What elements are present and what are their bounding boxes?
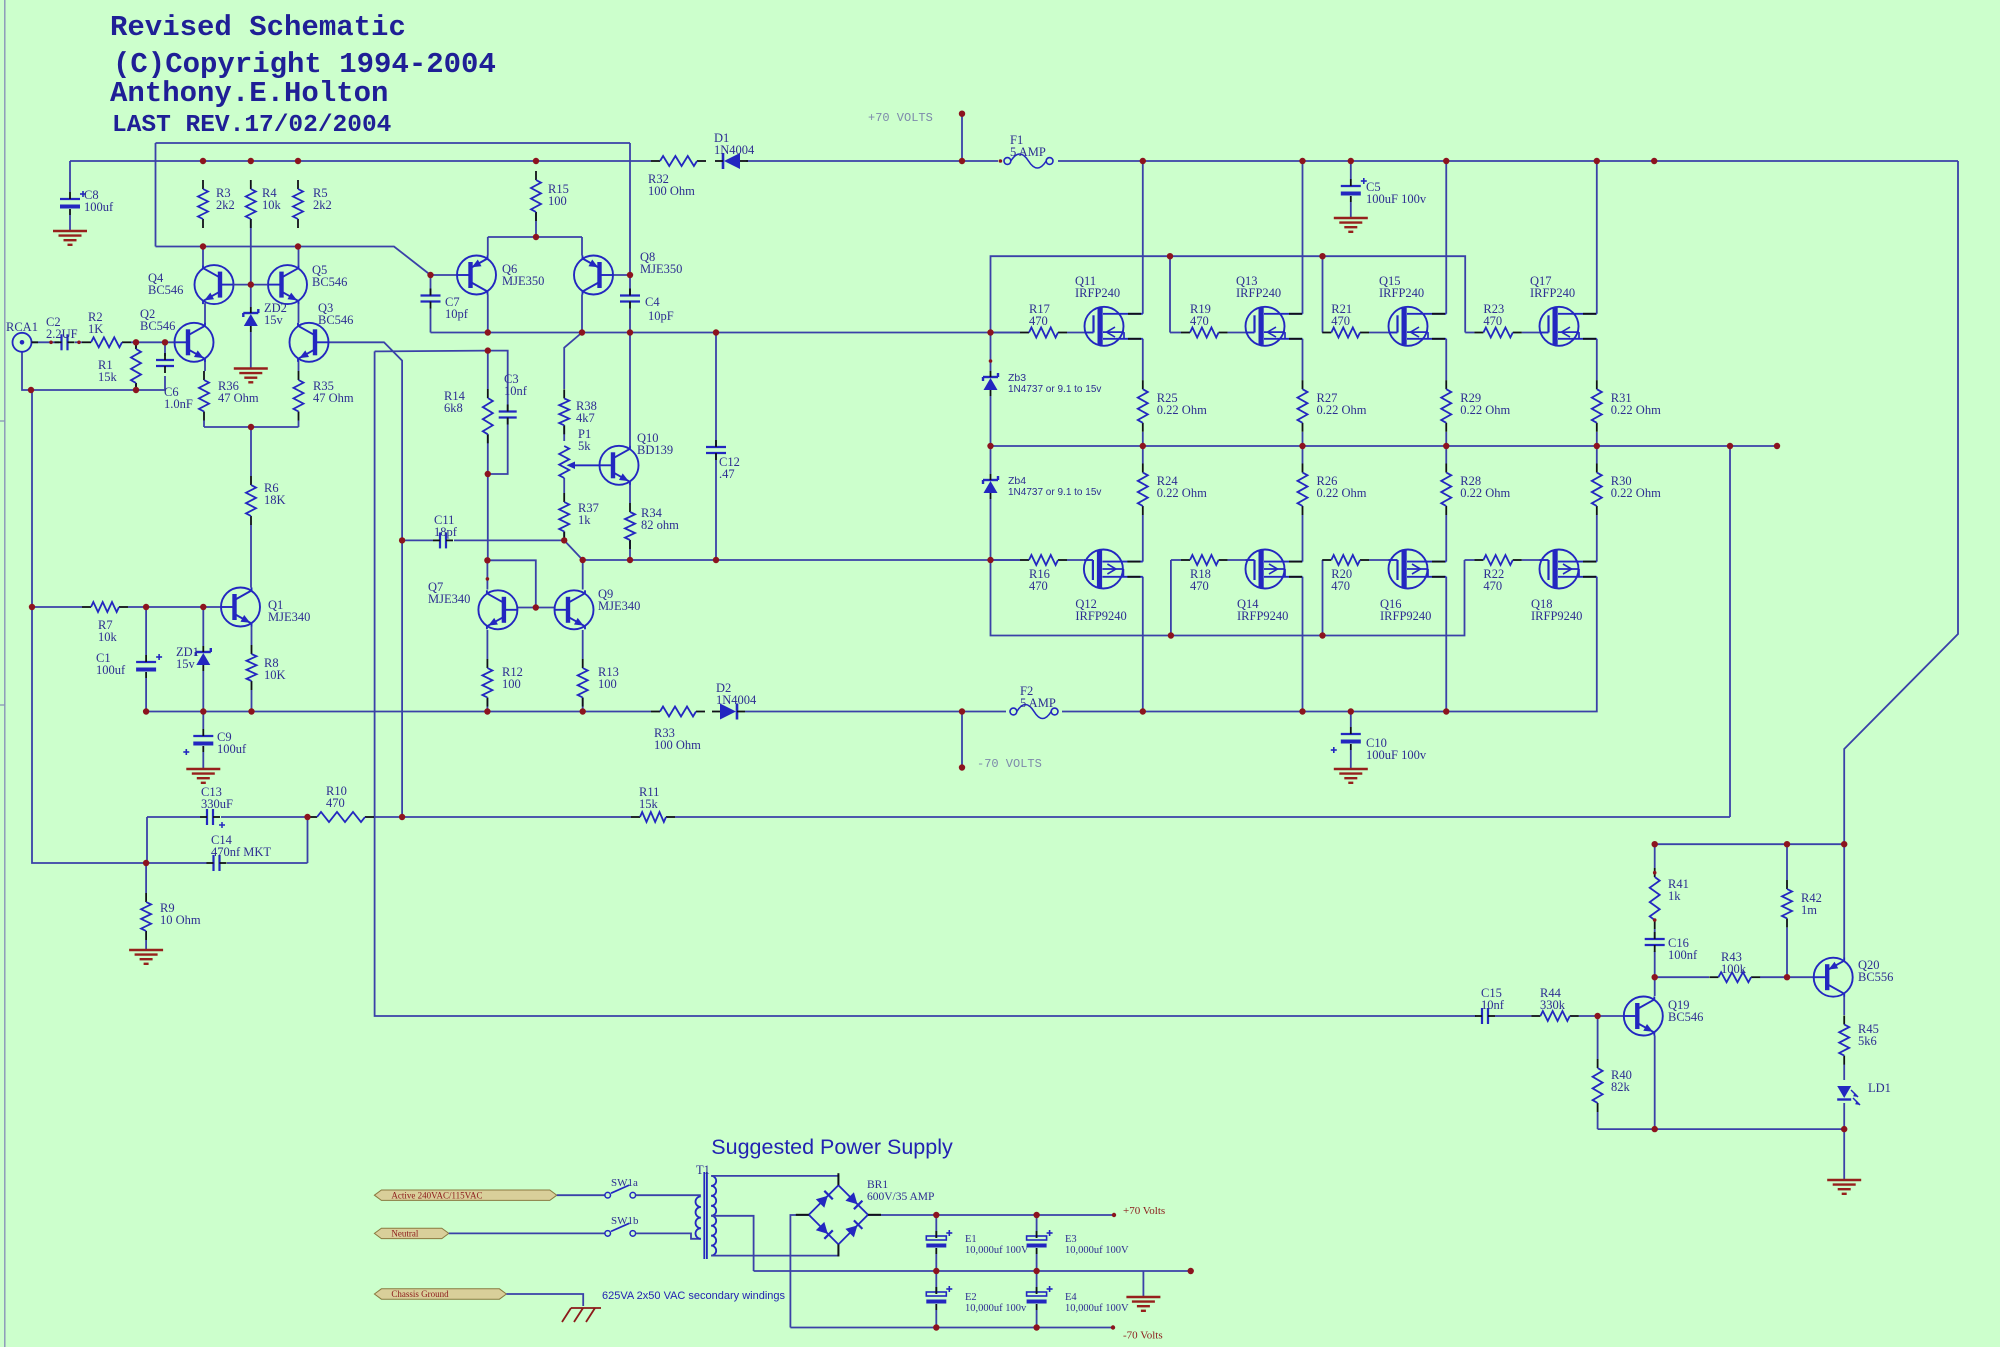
mosfet Q16 bbox=[1389, 550, 1447, 589]
svg-text:100: 100 bbox=[548, 194, 567, 208]
fuse F1 bbox=[1004, 154, 1053, 168]
mosfet Q17 bbox=[1540, 307, 1597, 346]
label D2 bbox=[716, 681, 757, 707]
pin dot R41a bbox=[1653, 871, 1657, 875]
svg-text:C4: C4 bbox=[645, 295, 660, 309]
text +70 VOLTS bbox=[868, 111, 933, 125]
label Q9 bbox=[598, 587, 640, 613]
svg-text:82 ohm: 82 ohm bbox=[641, 518, 679, 532]
wire R14 top stub bbox=[487, 351, 489, 389]
wire Active-SW1a bbox=[557, 1194, 605, 1196]
wire neg rail mid bbox=[745, 711, 1006, 713]
svg-text:MJE340: MJE340 bbox=[268, 610, 310, 624]
svg-text:E3: E3 bbox=[1065, 1234, 1077, 1245]
wire -70 line bbox=[790, 1325, 1115, 1329]
label BR1 bbox=[867, 1179, 934, 1203]
wire left vert bbox=[32, 390, 146, 863]
wire ZD2 top bbox=[250, 285, 252, 307]
svg-text:625VA 2x50 VAC secondary windi: 625VA 2x50 VAC secondary windings bbox=[602, 1290, 786, 1302]
resistor R17 bbox=[1020, 328, 1067, 338]
label E3 bbox=[1065, 1234, 1129, 1256]
junction at (1787,977) bbox=[1784, 974, 1790, 980]
wire Q8 base bbox=[613, 274, 631, 276]
svg-text:SW1b: SW1b bbox=[611, 1215, 639, 1227]
capacitor C4 bbox=[620, 289, 640, 309]
label R19 bbox=[1190, 302, 1211, 328]
flag Neutral bbox=[374, 1228, 448, 1238]
capacitor C15 bbox=[1475, 1008, 1495, 1024]
wire gate bus lower bbox=[583, 559, 1020, 561]
label Q17 bbox=[1530, 274, 1575, 300]
svg-text:470: 470 bbox=[326, 796, 345, 810]
wire source vert upper x1302 bbox=[1302, 339, 1304, 380]
svg-text:100: 100 bbox=[598, 677, 617, 691]
wire C4 stub bbox=[629, 275, 631, 296]
pin dot C2b bbox=[77, 341, 81, 345]
pin dot Q7c bbox=[486, 577, 490, 581]
svg-text:10pF: 10pF bbox=[648, 309, 674, 323]
label C2 bbox=[46, 315, 78, 341]
svg-text:10,000uf 100V: 10,000uf 100V bbox=[1065, 1303, 1129, 1314]
junction at (1170,256) bbox=[1167, 253, 1173, 259]
label Q14 bbox=[1237, 597, 1288, 623]
svg-text:470: 470 bbox=[1331, 579, 1350, 593]
svg-text:5 AMP: 5 AMP bbox=[1010, 145, 1046, 159]
svg-text:Anthony.E.Holton: Anthony.E.Holton bbox=[110, 77, 388, 110]
junction at (1190,1271) bbox=[1188, 1268, 1194, 1274]
junction at (1446,161) bbox=[1443, 158, 1449, 164]
junction at (630,332) bbox=[627, 329, 633, 335]
junction at (203,246) bbox=[200, 243, 206, 249]
zener Zb4 bbox=[983, 474, 998, 499]
svg-text:470: 470 bbox=[1190, 579, 1209, 593]
label R20 bbox=[1331, 567, 1352, 593]
svg-text:0.22 Ohm: 0.22 Ohm bbox=[1460, 486, 1510, 500]
svg-text:47 Ohm: 47 Ohm bbox=[313, 391, 354, 405]
resistor R8 bbox=[247, 645, 257, 690]
wire Q20 emitter bbox=[1843, 844, 1845, 958]
wire Q5 base bbox=[251, 284, 268, 286]
label Q11 bbox=[1075, 274, 1120, 300]
wire Q6 base bbox=[431, 274, 458, 276]
label R30 bbox=[1611, 474, 1661, 500]
wire source res2 bottom x1302 bbox=[1302, 446, 1304, 464]
wire Q9 emitter bbox=[582, 630, 584, 659]
svg-text:BD139: BD139 bbox=[637, 443, 673, 457]
resistor R15 bbox=[531, 171, 541, 221]
junction at (1350,711) bbox=[1348, 708, 1354, 714]
label Q12 bbox=[1075, 597, 1126, 623]
transistor Q5 bbox=[268, 265, 307, 304]
svg-text:6k8: 6k8 bbox=[444, 401, 463, 415]
svg-text:1K: 1K bbox=[88, 322, 103, 336]
wire +70 rail right bbox=[1058, 160, 1958, 162]
svg-text:100uf: 100uf bbox=[96, 663, 126, 677]
transformer T1 bbox=[695, 1172, 716, 1259]
wire R42 bottom bbox=[1786, 928, 1788, 978]
wire drain vert lower x1142 bbox=[1142, 577, 1144, 712]
wire R40 bottom bbox=[1597, 1112, 1599, 1129]
wire R38-P1 bbox=[563, 425, 565, 441]
text -70 VOLTS bbox=[977, 757, 1042, 771]
transistor Q10 bbox=[600, 446, 639, 485]
wire R18-gate bbox=[1228, 559, 1246, 561]
resistor R28 bbox=[1441, 464, 1451, 516]
wire R6 top bbox=[250, 427, 252, 476]
svg-text:E4: E4 bbox=[1065, 1292, 1077, 1303]
wire R15 bottom bbox=[535, 212, 537, 237]
svg-text:5 AMP: 5 AMP bbox=[1020, 696, 1056, 710]
junction at (962,113) bbox=[959, 111, 965, 117]
wire feed vert R18 bbox=[1170, 560, 1172, 636]
svg-text:470nf MKT: 470nf MKT bbox=[211, 845, 271, 859]
wire drain vert upper x1302 bbox=[1302, 161, 1304, 314]
svg-text:IRFP9240: IRFP9240 bbox=[1237, 609, 1288, 623]
wire Zb3 top bbox=[990, 333, 992, 372]
wire ZD1 top bbox=[202, 607, 204, 646]
junction at (487,711) bbox=[484, 708, 490, 714]
mosfet Q14 bbox=[1246, 550, 1303, 589]
wire C12 top bbox=[715, 333, 717, 448]
wire Q4 collector bbox=[202, 247, 204, 266]
svg-text:10 Ohm: 10 Ohm bbox=[160, 913, 201, 927]
junction at (203,607) bbox=[200, 604, 206, 610]
svg-text:Neutral: Neutral bbox=[391, 1229, 418, 1239]
svg-text:0.22 Ohm: 0.22 Ohm bbox=[1157, 403, 1207, 417]
label R8 bbox=[264, 656, 286, 682]
wire C13 left bbox=[146, 817, 148, 863]
wire Q6 collector down bbox=[487, 295, 489, 333]
svg-text:MJE340: MJE340 bbox=[428, 592, 470, 606]
transistor Q4 bbox=[195, 265, 234, 304]
wire C13 line bbox=[147, 816, 308, 818]
wire source vert upper x1142 bbox=[1142, 339, 1144, 380]
svg-text:1N4737 or 9.1 to 15v: 1N4737 or 9.1 to 15v bbox=[1008, 487, 1101, 498]
junction at (1322,256) bbox=[1319, 253, 1325, 259]
wire gate bus upper bbox=[431, 332, 1021, 334]
resistor R40 bbox=[1593, 1059, 1603, 1112]
junction at (250,284) bbox=[248, 281, 254, 287]
label C1 bbox=[96, 651, 126, 677]
wire zero volt line bbox=[754, 1270, 1191, 1272]
wire Q4 base bbox=[233, 284, 251, 286]
svg-text:470: 470 bbox=[1029, 314, 1048, 328]
wire R8 bottom bbox=[251, 690, 253, 712]
wire Q6 emitter up bbox=[487, 237, 489, 256]
wire C12 bottom bbox=[715, 454, 717, 561]
wire output vert bbox=[1729, 446, 1731, 817]
svg-text:470: 470 bbox=[1029, 579, 1048, 593]
pin dot C2a bbox=[49, 341, 53, 345]
label Q7 bbox=[428, 580, 470, 606]
potentiometer P1 bbox=[559, 446, 600, 478]
wire +70 stub bbox=[961, 114, 963, 161]
junction at (990,332) bbox=[987, 329, 993, 335]
resistor R18 bbox=[1181, 555, 1228, 565]
wire source res2 bottom x1142 bbox=[1142, 446, 1144, 464]
wire R9 bottom bbox=[145, 940, 147, 949]
wire +70 line bbox=[867, 1213, 1116, 1217]
wire +70 rail mid bbox=[746, 160, 998, 162]
label R32 bbox=[648, 172, 695, 198]
pin dot R41b bbox=[1653, 918, 1657, 922]
junction at (307,817) bbox=[304, 814, 310, 820]
diode D1 bbox=[715, 153, 748, 169]
junction at (251,427) bbox=[248, 424, 254, 430]
resistor R1 bbox=[131, 340, 141, 392]
wire diag R37-Q9col bbox=[564, 540, 583, 560]
junction at (936,1327) bbox=[933, 1324, 939, 1330]
svg-text:330uF: 330uF bbox=[201, 797, 233, 811]
svg-text:1N4737 or 9.1 to 15v: 1N4737 or 9.1 to 15v bbox=[1008, 384, 1101, 395]
capacitor E4 bbox=[1027, 1286, 1053, 1310]
svg-text:1N4004: 1N4004 bbox=[716, 693, 757, 707]
svg-text:4k7: 4k7 bbox=[576, 411, 595, 425]
wire LED bottom bbox=[1843, 1103, 1845, 1129]
wire R21 left bbox=[1321, 332, 1323, 334]
svg-text:10nf: 10nf bbox=[504, 384, 528, 398]
svg-text:100 Ohm: 100 Ohm bbox=[648, 184, 695, 198]
resistor R33 bbox=[651, 707, 705, 717]
wire R23-gate bbox=[1522, 332, 1540, 334]
wire R10-R11 line bbox=[374, 816, 1730, 818]
ground PSU bbox=[1126, 1297, 1160, 1311]
label Q18 bbox=[1531, 597, 1582, 623]
label Q4 bbox=[148, 271, 183, 297]
wire Q7 collector bbox=[486, 560, 488, 589]
label R35 bbox=[313, 379, 354, 405]
transistor Q3 bbox=[290, 323, 329, 362]
label LD1 bbox=[1868, 1081, 1891, 1095]
wire Zb3 bottom bbox=[990, 396, 992, 446]
ground C8 bbox=[53, 231, 87, 245]
flag Chassis Ground bbox=[374, 1289, 506, 1299]
capacitor C14 bbox=[207, 855, 227, 871]
junction at (1844,844) bbox=[1841, 841, 1847, 847]
wire R43 left bbox=[1655, 976, 1709, 978]
wire C6 top bbox=[164, 342, 166, 356]
ground R9 bbox=[129, 950, 163, 964]
wire base row bbox=[156, 247, 431, 276]
wire source vert lower x1142 bbox=[1142, 515, 1144, 562]
capacitor E1 bbox=[926, 1230, 952, 1254]
junction at (1036,1271) bbox=[1033, 1268, 1039, 1274]
junction at (536,237) bbox=[533, 234, 539, 240]
label C8 bbox=[84, 188, 114, 214]
svg-text:+70 Volts: +70 Volts bbox=[1123, 1205, 1165, 1217]
resistor R43 bbox=[1709, 972, 1760, 982]
label C6 bbox=[164, 385, 193, 411]
label R45 bbox=[1858, 1022, 1879, 1048]
label R26 bbox=[1317, 474, 1367, 500]
label ZD1 bbox=[176, 645, 199, 671]
capacitor C13 bbox=[200, 809, 220, 825]
zener ZD1 bbox=[196, 646, 211, 671]
title text bbox=[110, 11, 496, 139]
junction at (251,711) bbox=[248, 708, 254, 714]
svg-text:SW1a: SW1a bbox=[611, 1177, 638, 1189]
svg-text:BC546: BC546 bbox=[318, 313, 353, 327]
resistor R7 bbox=[82, 602, 128, 612]
label R34 bbox=[641, 506, 679, 532]
label R27 bbox=[1317, 391, 1367, 417]
label R31 bbox=[1611, 391, 1661, 417]
label R37 bbox=[578, 501, 599, 527]
wire drain vert upper Q17 bbox=[1596, 161, 1598, 314]
capacitor C8 bbox=[60, 191, 86, 215]
wire R1 bottom bbox=[135, 383, 137, 390]
transistor Q9 bbox=[555, 590, 594, 629]
wire C3 bottom bbox=[488, 418, 508, 475]
label SW1b bbox=[611, 1215, 639, 1227]
wire Q1 base bbox=[220, 606, 223, 608]
wire input mid bbox=[75, 341, 82, 343]
wire Q20 base bbox=[1787, 976, 1813, 978]
wire C9 bottom bbox=[202, 752, 204, 768]
label C15 bbox=[1481, 986, 1505, 1012]
svg-text:100uf: 100uf bbox=[217, 742, 247, 756]
wire Q5 collector bbox=[298, 247, 300, 266]
wire R1 top bbox=[135, 342, 137, 349]
resistor R42 bbox=[1782, 880, 1792, 927]
junction at (136,342) bbox=[133, 339, 139, 345]
wire Q10 emitter bbox=[629, 485, 631, 504]
label C4 bbox=[645, 295, 674, 323]
zener ZD2 bbox=[243, 307, 258, 332]
svg-text:15v: 15v bbox=[264, 313, 284, 327]
switch SW1a bbox=[605, 1185, 636, 1198]
junction at (564,540) bbox=[561, 537, 567, 543]
label R6 bbox=[264, 481, 286, 507]
capacitor C7 bbox=[421, 289, 441, 309]
label R1 bbox=[98, 358, 118, 384]
junction at (1142,446) bbox=[1140, 443, 1146, 449]
svg-text:MJE340: MJE340 bbox=[598, 599, 640, 613]
capacitor C6 bbox=[156, 353, 174, 373]
wire R14 bottom bbox=[487, 434, 489, 474]
junction at (1302,711) bbox=[1299, 708, 1305, 714]
wire R13 bottom bbox=[582, 698, 584, 712]
wire C14 right bbox=[307, 817, 309, 863]
svg-text:100uf: 100uf bbox=[84, 200, 114, 214]
wire -70 stub bbox=[961, 712, 963, 768]
label C7 bbox=[445, 295, 469, 321]
wire feed vert R19 bbox=[1169, 256, 1171, 332]
wire Q1 emitter bbox=[251, 627, 253, 646]
wire E3 bottom bbox=[1036, 1254, 1038, 1271]
label C13 bbox=[201, 785, 233, 811]
junction at (1596,161) bbox=[1594, 158, 1600, 164]
label Q13 bbox=[1236, 274, 1281, 300]
diode D2 bbox=[712, 704, 745, 720]
resistor R38 bbox=[559, 389, 569, 434]
wire C16-node bbox=[1654, 951, 1656, 977]
connector RCA1 bbox=[13, 333, 39, 352]
svg-text:5k6: 5k6 bbox=[1858, 1034, 1877, 1048]
label Zb3 bbox=[1008, 372, 1101, 395]
mosfet Q12 bbox=[1084, 550, 1143, 589]
wire C10 bottom bbox=[1350, 750, 1352, 768]
wire source res bottom x1596 bbox=[1596, 432, 1598, 446]
transistor Q2 bbox=[175, 323, 214, 362]
svg-text:0.22 Ohm: 0.22 Ohm bbox=[1611, 403, 1661, 417]
label SW1a bbox=[611, 1177, 638, 1189]
wire R23 left bbox=[1465, 332, 1474, 334]
svg-text:100 Ohm: 100 Ohm bbox=[654, 738, 701, 752]
ground C9 bbox=[186, 769, 220, 783]
label R10 bbox=[326, 784, 347, 810]
label R7 bbox=[98, 618, 118, 644]
junction at (1036,1215) bbox=[1033, 1212, 1039, 1218]
wire ZD1 bottom bbox=[202, 671, 204, 712]
wire C1 bottom bbox=[145, 678, 147, 712]
label Q20 bbox=[1858, 958, 1893, 984]
wire C9 top bbox=[202, 712, 204, 730]
svg-text:MJE350: MJE350 bbox=[640, 262, 682, 276]
label R42 bbox=[1801, 891, 1822, 917]
junction at (487,350) bbox=[485, 347, 491, 353]
svg-text:BC546: BC546 bbox=[1668, 1010, 1703, 1024]
wire ZD2 bottom bbox=[250, 332, 252, 368]
label C5 bbox=[1366, 180, 1427, 206]
junction at (936,1215) bbox=[933, 1212, 939, 1218]
svg-text:10,000uf 100V: 10,000uf 100V bbox=[1065, 1245, 1129, 1256]
transistor Q20 bbox=[1814, 958, 1853, 997]
wire E2 bottom bbox=[935, 1310, 937, 1328]
label T1 bbox=[696, 1163, 710, 1177]
resistor R10 bbox=[308, 812, 374, 822]
junction at (402,817) bbox=[399, 814, 405, 820]
svg-text:10k: 10k bbox=[262, 198, 282, 212]
chassis ground symbol bbox=[562, 1308, 601, 1322]
wire C5 top bbox=[1350, 161, 1352, 179]
junction at (990,446) bbox=[987, 443, 993, 449]
resistor R30 bbox=[1592, 464, 1602, 516]
wire E4 bottom bbox=[1036, 1310, 1038, 1328]
resistor R32 bbox=[651, 156, 706, 166]
junction at (430,275) bbox=[427, 272, 433, 278]
resistor R3 bbox=[198, 180, 208, 228]
wire Q19 emitter bbox=[1654, 1036, 1656, 1130]
junction at (936,1271) bbox=[933, 1268, 939, 1274]
wire R6 bottom bbox=[250, 525, 252, 588]
label C9 bbox=[217, 730, 247, 756]
wire feed bus upper bbox=[991, 256, 1466, 332]
svg-text:1k: 1k bbox=[1668, 889, 1681, 903]
label C16 bbox=[1668, 936, 1698, 962]
resistor R35 bbox=[294, 371, 304, 421]
text Suggested Power Supply bbox=[711, 1135, 953, 1159]
junction at (535,607) bbox=[533, 604, 539, 610]
svg-text:330k: 330k bbox=[1540, 998, 1566, 1012]
label R12 bbox=[502, 665, 523, 691]
wire R10 line bbox=[307, 816, 310, 818]
svg-text:RCA1: RCA1 bbox=[6, 320, 38, 334]
pin dot Zb3 bbox=[989, 359, 993, 363]
wire Q19 collector bbox=[1654, 977, 1656, 996]
wire Q9 base bbox=[536, 607, 555, 609]
label R17 bbox=[1029, 302, 1050, 328]
resistor R14 bbox=[483, 389, 493, 443]
svg-text:E2: E2 bbox=[965, 1292, 977, 1303]
wire C8 top bbox=[69, 161, 71, 192]
svg-text:0.22 Ohm: 0.22 Ohm bbox=[1157, 486, 1207, 500]
svg-text:0.22 Ohm: 0.22 Ohm bbox=[1460, 403, 1510, 417]
resistor R6 bbox=[246, 476, 256, 525]
wire psu gnd stub bbox=[1142, 1271, 1144, 1296]
resistor R34 bbox=[625, 503, 635, 549]
capacitor C11 bbox=[433, 532, 453, 548]
